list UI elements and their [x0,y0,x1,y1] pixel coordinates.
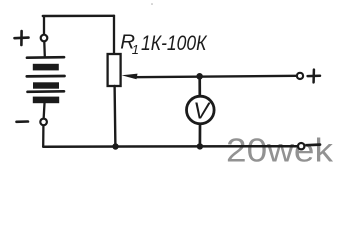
potentiometer R1 body [108,54,121,86]
battery GB1 plates [27,57,65,103]
wiper arrow line [134,76,296,77]
output terminal - (open circle) [298,143,304,149]
battery GB1 top terminal [41,35,48,42]
wire potentiometer bottom [113,86,116,147]
wire down to potentiometer [113,16,115,55]
node voltmeter/bottom rail [197,143,203,149]
wire top horizontal [43,15,114,18]
node wiper/voltmeter junction [196,73,203,80]
node pot/bottom rail [112,143,118,149]
wiper arrowhead [122,74,138,80]
minus sign (output) [307,143,320,146]
wire voltmeter top lead [198,76,201,96]
svg-text:1: 1 [132,42,139,57]
battery GB1 lead [43,42,46,56]
wire battery + to top [43,16,45,34]
voltmeter V circle [187,96,215,124]
svg-text:1К-100К: 1К-100К [141,31,208,55]
wire battery - to bottom rail [42,126,45,147]
plus sign (battery +) [15,31,29,45]
battery GB1 lower lead [43,103,46,118]
output terminal + (open circle) [297,73,303,79]
wire voltmeter bottom lead [199,125,202,147]
bottom rail wire [43,145,297,148]
speck [151,3,153,5]
minus sign (battery -) [17,120,29,123]
svg-text:20wek: 20wek [226,132,334,169]
plus sign (output) [308,70,320,83]
svg-text:V: V [193,97,211,123]
battery GB1 bottom terminal [40,119,47,126]
